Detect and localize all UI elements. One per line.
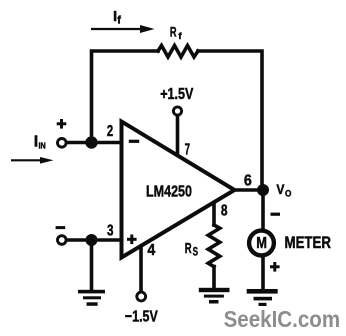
- svg-text:SeekIC.com: SeekIC.com: [224, 306, 341, 332]
- svg-text:IN: IN: [39, 141, 46, 151]
- svg-text:f: f: [178, 31, 182, 42]
- svg-text:3: 3: [107, 223, 114, 240]
- svg-text:f: f: [117, 15, 121, 27]
- svg-text:−1.5V: −1.5V: [125, 309, 158, 326]
- svg-text:METER: METER: [285, 234, 332, 252]
- svg-text:R: R: [170, 24, 177, 39]
- svg-text:2: 2: [107, 123, 113, 140]
- svg-text:LM4250: LM4250: [146, 184, 192, 201]
- svg-text:7: 7: [185, 141, 190, 158]
- svg-text:6: 6: [244, 172, 252, 189]
- svg-text:O: O: [285, 189, 291, 200]
- svg-text:8: 8: [221, 202, 228, 219]
- svg-text:R: R: [185, 240, 192, 257]
- svg-text:S: S: [193, 246, 199, 258]
- svg-text:4: 4: [147, 242, 155, 259]
- svg-text:M: M: [256, 235, 267, 252]
- svg-text:+1.5V: +1.5V: [160, 86, 193, 103]
- svg-text:V: V: [276, 181, 285, 197]
